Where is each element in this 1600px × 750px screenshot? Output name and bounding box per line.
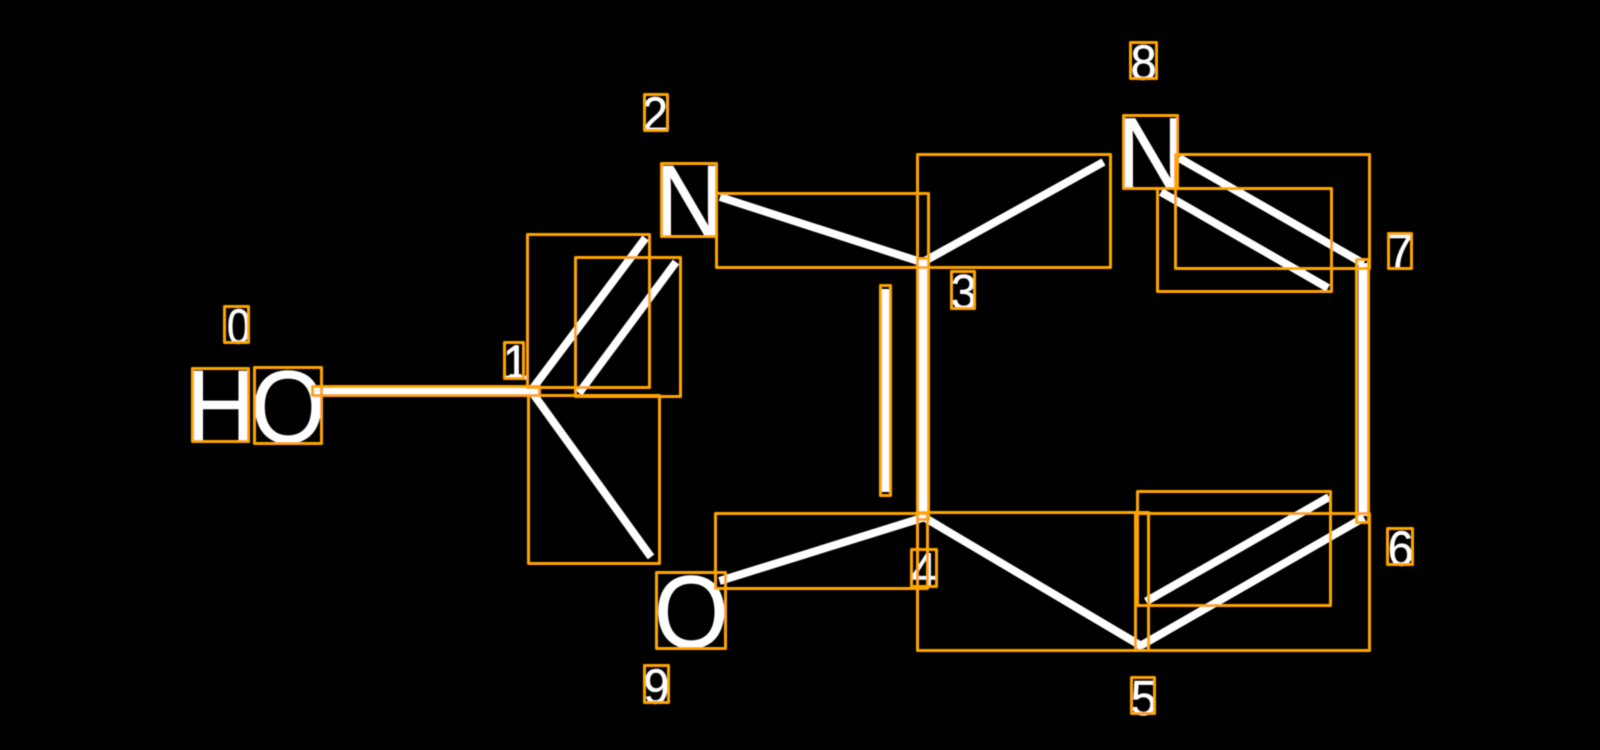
svg-text:9: 9	[643, 660, 669, 714]
svg-text:8: 8	[1131, 36, 1157, 90]
svg-text:6: 6	[1388, 522, 1414, 576]
svg-text:3: 3	[951, 266, 977, 320]
svg-text:5: 5	[1131, 672, 1157, 726]
svg-text:4: 4	[911, 544, 937, 598]
